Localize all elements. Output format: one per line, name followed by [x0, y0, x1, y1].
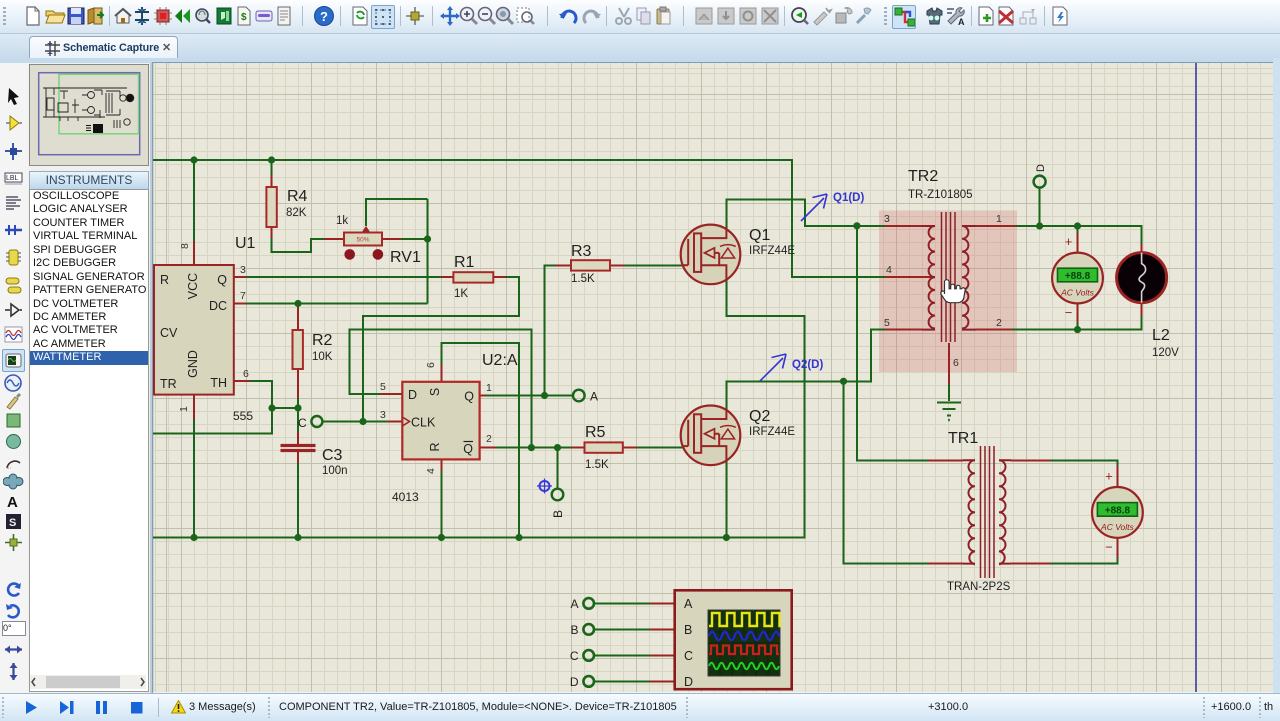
pin scope C stub: [650, 654, 675, 656]
voltmeter V2 AC Volts: [1092, 468, 1143, 554]
svg-text:R: R: [160, 273, 169, 287]
pin TR1 sec bottom stub: [1011, 563, 1050, 565]
wire RV1 wiper loop: [366, 199, 428, 226]
terminal A scope: [583, 598, 594, 609]
pin 555 GND stub: [193, 395, 195, 419]
wire C terminal to CLK: [323, 421, 388, 423]
resistor R4: [266, 187, 276, 227]
svg-text:B: B: [684, 623, 692, 637]
pin R4 top stub: [271, 175, 273, 187]
pin 555 TH stub: [234, 380, 250, 382]
wire TR1 sec bottom to voltmeter V2: [1050, 558, 1117, 564]
svg-text:4: 4: [425, 468, 437, 474]
wire TH node to C3 top: [297, 408, 299, 432]
resistor R1: [453, 272, 493, 282]
pin voltmeter V1 minus stub: [1077, 304, 1079, 323]
svg-text:LBL: LBL: [6, 175, 19, 182]
wire Q2 source to rail: [725, 460, 727, 538]
oscilloscope component: [675, 590, 792, 689]
junction rail-VCC: [190, 156, 197, 163]
terminal D scope: [583, 676, 594, 687]
junction CLK node: [359, 418, 366, 425]
svg-text:?: ?: [320, 9, 328, 24]
svg-text:Q1: Q1: [749, 227, 770, 244]
wire Qbar node down to terminal B: [557, 448, 559, 490]
svg-text:R: R: [428, 442, 442, 451]
junction TH node left: [268, 404, 275, 411]
pin R5 right stub: [622, 447, 637, 449]
wire terminal D drop: [1039, 188, 1041, 227]
svg-text:R2: R2: [312, 332, 333, 349]
terminal B: [552, 489, 564, 501]
wire VCC top rail to TR2 pin4: [153, 160, 885, 277]
svg-text:C3: C3: [322, 447, 343, 464]
svg-text:RV1: RV1: [390, 249, 421, 266]
svg-text:D: D: [408, 388, 417, 402]
junction DC-R2: [294, 300, 301, 307]
wire 555 TH pin6 to node: [250, 381, 298, 408]
sheet border: [1195, 63, 1197, 692]
pin TR1 prim top stub: [927, 459, 963, 461]
pin voltmeter V1 plus stub: [1077, 233, 1079, 253]
junction rail-R4: [268, 156, 275, 163]
transistor Q1 IRFZ44E: [681, 225, 741, 285]
pin TR2 p2 stub: [976, 329, 1012, 331]
wire TR1 sec top to voltmeter V2: [1050, 460, 1117, 466]
svg-text:3: 3: [380, 409, 386, 421]
terminal C: [311, 416, 322, 427]
potentiometer RV1: [344, 226, 383, 260]
pin C3 bottom stub: [297, 452, 299, 463]
wire scope terminal A: [594, 602, 650, 604]
svg-text:7: 7: [240, 290, 246, 302]
svg-text:2: 2: [996, 317, 1002, 329]
wire voltmeter V1 minus stub: [1077, 323, 1079, 330]
wire R5 to Q2 gate: [622, 447, 683, 449]
terminal D top: [1034, 176, 1046, 188]
pin 4013 Q stub: [480, 395, 486, 397]
svg-text:VCC: VCC: [186, 273, 200, 299]
wire R1 right to CLK node: [363, 277, 519, 422]
wire 555 TR pin2 loop: [153, 408, 272, 433]
pin R5 left stub: [572, 447, 585, 449]
svg-text:U2:A: U2:A: [482, 352, 518, 369]
pin R3 left stub: [556, 264, 571, 266]
pin R3 right stub: [610, 264, 624, 266]
svg-text:1.5K: 1.5K: [585, 459, 609, 471]
wire 555 Q pin3 to R1: [246, 276, 441, 278]
junction voltmeter minus node: [1074, 326, 1081, 333]
pin 4013 S stub: [440, 365, 442, 382]
svg-text:TR1: TR1: [948, 430, 978, 447]
svg-text:AC Volts: AC Volts: [1060, 288, 1095, 298]
svg-text:A: A: [958, 17, 965, 27]
IC U1 555 timer body: [154, 265, 234, 395]
junction rail 4013 R: [438, 534, 445, 541]
svg-text:AC Volts: AC Volts: [1100, 522, 1135, 532]
svg-text:6: 6: [243, 368, 249, 380]
wire TR2 pin1 row to lamp: [1015, 226, 1141, 244]
probe Q2(D): [760, 354, 786, 381]
svg-text:S: S: [428, 388, 442, 396]
svg-text:1K: 1K: [454, 288, 468, 300]
capacitor C3: [281, 444, 316, 452]
wire C3 bottom to rail: [297, 463, 299, 538]
svg-text:R3: R3: [571, 243, 592, 260]
svg-text:1: 1: [486, 382, 492, 394]
wire scope terminal D: [594, 680, 650, 682]
junction Qbar-D node: [528, 444, 535, 451]
pin R1 left stub: [441, 276, 453, 278]
pin 4013 CLK stub: [387, 421, 402, 423]
pin 4013 R stub: [440, 459, 442, 471]
pin 555 DC stub: [234, 303, 246, 305]
svg-text:−: −: [1065, 305, 1073, 320]
pin TR2 p5 stub: [885, 329, 922, 331]
pin voltmeter V2 minus stub: [1116, 538, 1118, 559]
selection highlight on TR2: [879, 211, 1017, 373]
wire scope terminal B: [594, 628, 650, 630]
svg-text:10K: 10K: [312, 351, 333, 363]
terminal B scope: [583, 624, 594, 635]
svg-text:B: B: [570, 623, 578, 637]
svg-text:TR: TR: [160, 377, 177, 391]
pin 4013 D stub: [380, 393, 402, 395]
junction rail S wire: [515, 534, 522, 541]
svg-text:Q: Q: [463, 442, 473, 456]
mouse cursor hand: [941, 280, 965, 303]
svg-text:TH: TH: [210, 376, 227, 390]
wire R2 bottom to TH node: [297, 398, 299, 408]
svg-text:D: D: [1035, 164, 1047, 172]
svg-text:R4: R4: [287, 188, 308, 205]
lamp L2: [1117, 253, 1167, 303]
svg-text:555: 555: [233, 409, 253, 423]
svg-text:A: A: [590, 390, 598, 404]
wire 555 DC pin7 row: [246, 303, 428, 305]
pin R2 bottom stub: [297, 369, 299, 398]
svg-text:TR-Z101805: TR-Z101805: [908, 189, 973, 201]
junction RV1 node: [424, 235, 431, 242]
pin 4013 Qbar stub: [480, 447, 496, 449]
pin scope B stub: [650, 628, 675, 630]
svg-text:+88.8: +88.8: [1065, 271, 1091, 282]
pin RV1 right stub: [382, 238, 401, 240]
junction rail Q2 source: [723, 534, 730, 541]
pin TR2 p4 stub: [885, 276, 935, 278]
svg-text:1k: 1k: [336, 215, 348, 227]
svg-text:6: 6: [953, 357, 959, 369]
svg-text:A: A: [570, 597, 578, 611]
svg-text:Q1(D): Q1(D): [833, 192, 864, 204]
pin TR2 p6 stub: [948, 343, 950, 384]
svg-text:TRAN-2P2S: TRAN-2P2S: [947, 581, 1011, 593]
wire scope terminal C: [594, 654, 650, 656]
wire TR2 pin3 node down to TR1 primary top: [857, 226, 928, 460]
svg-text:CV: CV: [160, 326, 178, 340]
IC U2:A 4013 flip-flop body: [402, 382, 479, 460]
svg-text:D: D: [684, 675, 693, 689]
pin R1 right stub: [493, 276, 505, 278]
svg-text:R5: R5: [585, 424, 606, 441]
wire 555 pin8 VCC drop: [193, 160, 195, 241]
pin TR1 sec top stub: [1011, 459, 1050, 461]
resistor R2: [293, 330, 303, 369]
wire RV1 right lead to node: [401, 238, 428, 240]
svg-text:3: 3: [240, 264, 246, 276]
svg-text:82K: 82K: [286, 207, 307, 219]
svg-text:5: 5: [380, 381, 386, 393]
svg-text:Q2: Q2: [749, 408, 770, 425]
pin R4 bottom stub: [271, 227, 273, 238]
svg-text:$: $: [241, 12, 247, 23]
wire Q2 drain to TR2 pin5: [726, 330, 885, 411]
ground symbol: [937, 403, 961, 421]
svg-text:U1: U1: [235, 235, 256, 252]
svg-text:100n: 100n: [322, 465, 348, 477]
pin R2 top stub: [297, 304, 299, 331]
voltmeter V1 AC Volts: [1052, 234, 1103, 320]
transformer TR1: [963, 446, 1011, 578]
junction TH node right: [294, 404, 301, 411]
svg-text:C: C: [570, 649, 579, 663]
svg-text:1: 1: [996, 213, 1002, 225]
junction terminal D node: [1036, 222, 1043, 229]
svg-text:2: 2: [486, 433, 492, 445]
svg-text:50%: 50%: [356, 237, 369, 244]
svg-text:A: A: [684, 597, 693, 611]
svg-text:TR2: TR2: [908, 168, 938, 185]
wire ground rail: [153, 279, 804, 538]
resistor R3: [571, 260, 610, 270]
svg-text:IRFZ44E: IRFZ44E: [749, 245, 795, 257]
wire 4013 R pin to ground rail: [440, 471, 442, 538]
svg-text:+88.8: +88.8: [1105, 505, 1131, 516]
junction Qbar-B node: [554, 444, 561, 451]
svg-text:4013: 4013: [392, 490, 419, 504]
transformer TR2: [922, 212, 976, 342]
probe Q1(D): [801, 194, 827, 221]
pin RV1 left stub: [324, 238, 344, 240]
svg-text:R1: R1: [454, 254, 475, 271]
wire R4 bottom to RV1 left: [272, 238, 325, 252]
junction TR2 pin3 node: [853, 222, 860, 229]
wire 555 GND pin1 to rail: [193, 419, 195, 538]
svg-text:−: −: [1105, 539, 1113, 554]
svg-text:1: 1: [178, 406, 190, 412]
svg-text:8: 8: [179, 243, 191, 249]
svg-text:A: A: [7, 494, 18, 511]
svg-text:3: 3: [884, 213, 890, 225]
pin lamp bottom stub: [1141, 303, 1143, 316]
svg-text:B: B: [551, 510, 565, 518]
junction Q2 drain node: [840, 378, 847, 385]
wire Q2 drain node down to TR1 primary bottom: [844, 381, 928, 563]
pin Q1 gate stub: [683, 264, 690, 266]
svg-text:6: 6: [425, 362, 437, 368]
pin TR2 p1 stub: [976, 225, 1016, 227]
resistor R5: [585, 442, 623, 452]
wire TR2 pin2 row to lamp bottom: [1012, 316, 1142, 330]
svg-text:Q: Q: [464, 390, 474, 404]
pin TR1 prim bottom stub: [927, 563, 963, 565]
svg-text:S: S: [9, 517, 16, 529]
junction rail C3: [294, 534, 301, 541]
svg-text:+: +: [1105, 468, 1113, 483]
svg-text:CLK: CLK: [411, 416, 436, 430]
terminal C scope: [583, 650, 594, 661]
svg-text:DC: DC: [209, 299, 227, 313]
svg-text:GND: GND: [186, 350, 200, 378]
pin Q2 gate stub: [683, 447, 690, 449]
pin 555 VCC stub: [193, 241, 195, 265]
junction Q-A node: [541, 392, 548, 399]
wire Qbar feedback to D input: [350, 330, 532, 448]
origin marker: [537, 479, 552, 494]
wire TR2 pin6 to ground: [948, 384, 950, 401]
terminal A: [573, 390, 585, 402]
wire 4013 S pin to ground rail: [441, 343, 519, 538]
svg-text:C: C: [684, 649, 693, 663]
wire Qbar row to R5: [496, 447, 572, 449]
wire 4013 Q pin1 to terminal A: [485, 395, 573, 397]
svg-text:Q2(D): Q2(D): [792, 359, 823, 371]
junction voltmeter plus node: [1074, 222, 1081, 229]
wire Q node up to R3: [545, 265, 556, 395]
svg-text:L2: L2: [1152, 327, 1170, 344]
pin scope A stub: [650, 602, 675, 604]
pin C3 top stub: [297, 432, 299, 444]
svg-text:C: C: [298, 416, 307, 430]
svg-text:D: D: [570, 675, 579, 689]
junction rail 555 gnd: [190, 534, 197, 541]
wire Q1 drain jog to TR2 pin3: [726, 199, 885, 230]
pin TR2 p3 stub: [885, 225, 922, 227]
wire voltmeter V1 plus stub top: [1077, 226, 1079, 233]
pin 555 Q stub: [234, 276, 246, 278]
svg-text:+: +: [1065, 234, 1073, 249]
svg-text:5: 5: [884, 317, 890, 329]
pin voltmeter V2 plus stub: [1116, 466, 1118, 488]
svg-text:IRFZ44E: IRFZ44E: [749, 426, 795, 438]
svg-text:120V: 120V: [1152, 347, 1179, 359]
wire R4 top to rail: [271, 160, 273, 175]
wire R3 to Q1 gate: [624, 264, 682, 266]
svg-text:1.5K: 1.5K: [571, 273, 595, 285]
pin lamp top stub: [1141, 244, 1143, 253]
svg-text:4: 4: [886, 264, 892, 276]
transistor Q2 IRFZ44E: [681, 406, 741, 466]
svg-text:Q: Q: [217, 273, 227, 287]
wire RV1 node down to DC row: [427, 199, 429, 304]
pin scope D stub: [650, 680, 675, 682]
